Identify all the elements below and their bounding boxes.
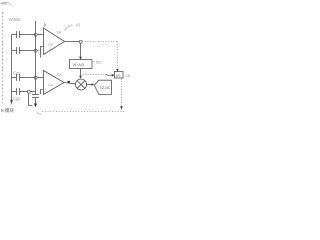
label -08 <box>124 73 131 78</box>
U2 lower input stub <box>41 90 44 95</box>
LO box <box>115 72 124 79</box>
label k <box>44 22 47 27</box>
main bus vertical <box>35 21 37 95</box>
U1 lower input stub <box>41 47 44 58</box>
ADC text <box>100 85 111 90</box>
mixer <box>76 79 87 90</box>
op-amp U1 <box>44 28 65 55</box>
ADC tag shape <box>94 80 111 94</box>
svg-text:W/AB: W/AB <box>73 62 85 67</box>
wire row3 <box>12 77 17 79</box>
wire mixer to ADC <box>87 84 92 86</box>
wire bus to amp1 input <box>37 34 44 36</box>
dashed stub row2 to feedback line <box>37 50 40 52</box>
dashed bottom line <box>42 111 126 113</box>
wire filter to mixer <box>80 69 82 76</box>
label W365 <box>9 17 21 22</box>
svg-text:43: 43 <box>76 23 80 27</box>
label Cgs <box>13 71 20 76</box>
filter box text <box>73 62 85 67</box>
dashed line below LO <box>121 79 123 107</box>
capacitor C1 <box>17 31 20 38</box>
svg-text:k: k <box>44 22 47 27</box>
label S8 (U1) <box>56 29 62 34</box>
label 430 <box>76 23 80 27</box>
wire row4 <box>12 91 17 93</box>
shunt capacitor stem <box>35 98 37 104</box>
bottom module text <box>1 107 15 114</box>
dashed boundary line left <box>2 12 4 103</box>
wire row1 right <box>20 34 35 36</box>
leader squiggle for 400 <box>7 2 12 5</box>
label 430 leader <box>65 26 73 31</box>
node square at U1 output junction <box>80 41 83 44</box>
svg-text:S8: S8 <box>56 29 62 34</box>
squiggle before LO <box>105 74 109 75</box>
svg-text:W365: W365 <box>9 17 21 22</box>
label S8 (U2) <box>57 72 63 77</box>
wire row1 <box>12 34 17 36</box>
electrode bus vertical <box>11 35 13 101</box>
node square row1 <box>35 34 38 37</box>
LO box text <box>116 73 121 78</box>
wire row3 right <box>20 77 35 79</box>
filter box <box>70 60 93 69</box>
svg-text:-08: -08 <box>124 73 131 78</box>
svg-text:400: 400 <box>1 1 7 5</box>
node square row2 <box>35 50 38 53</box>
svg-text:S8: S8 <box>57 72 63 77</box>
op-amp U2 <box>44 71 65 95</box>
svg-text:Gv: Gv <box>48 41 53 46</box>
shunt capacitor Cs plates <box>32 95 39 98</box>
label Gv (U2) <box>48 82 53 87</box>
arrowhead into ADC <box>92 83 95 86</box>
svg-text:Cgp: Cgp <box>13 96 21 101</box>
wire row3 to amp2 input <box>37 77 44 79</box>
arrowhead into mixer <box>79 76 82 79</box>
wire U1 output <box>65 41 81 43</box>
capacitor C2 <box>17 47 20 54</box>
wire from row4 node down with corner <box>29 93 33 106</box>
wire row4 right <box>20 91 36 93</box>
wire row2 <box>12 50 17 52</box>
label 528 dash <box>93 61 95 63</box>
arrowhead into LO top <box>116 69 119 72</box>
wire junction down to filter <box>80 43 82 57</box>
label Gv (U1) <box>48 41 53 46</box>
bottom squiggle <box>37 113 41 114</box>
svg-text:12-BC: 12-BC <box>100 85 111 90</box>
svg-text:65: 65 <box>116 73 121 78</box>
wire row2 right <box>20 50 35 52</box>
wire U2 output <box>64 83 75 84</box>
junction dot on U2 output <box>68 81 70 83</box>
arrowhead down <box>120 106 123 109</box>
dotted line to LO left <box>83 74 105 76</box>
svg-text:52x: 52x <box>96 60 102 65</box>
capacitor C4 <box>17 88 20 95</box>
dotted control line right from junction <box>82 41 117 43</box>
capacitor C3 <box>17 74 20 81</box>
figure label 400 <box>1 1 7 5</box>
arrowhead at electrode bus bottom <box>10 100 12 105</box>
node square row4 <box>28 91 31 94</box>
dotted control line down to LO <box>117 42 119 70</box>
ground arrow <box>34 104 37 108</box>
arrow into LO left <box>110 74 113 76</box>
label Cgp <box>13 96 21 101</box>
node square row3 <box>35 77 38 80</box>
label 528 <box>96 60 102 65</box>
svg-text:X 模块: X 模块 <box>1 107 15 114</box>
arrowhead into filter box <box>79 57 82 60</box>
svg-text:Gv: Gv <box>48 82 53 87</box>
